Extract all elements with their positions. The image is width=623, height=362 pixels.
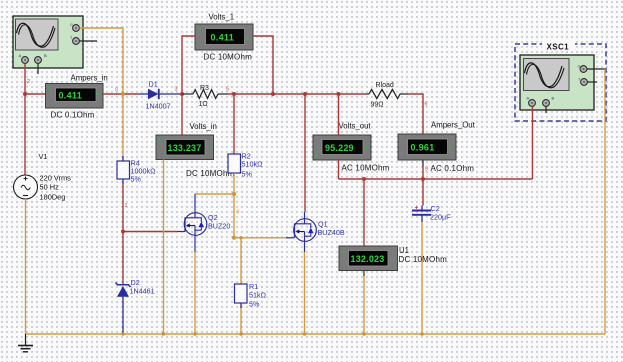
svg-text:B: B: [552, 96, 555, 101]
node junction at (273,94): [271, 92, 275, 96]
ammeter Ampers_in: [46, 74, 108, 120]
resistor R3 1 Ohm: [182, 85, 228, 108]
svg-text:Ampers_Out: Ampers_Out: [431, 121, 476, 130]
svg-text:Rload: Rload: [376, 82, 394, 89]
ammeter Ampers_Out: [398, 121, 476, 174]
MOSFET Q2 BUZ20: [184, 194, 230, 252]
zener diode D2 1N4461: [116, 278, 155, 334]
svg-text:9: 9: [237, 210, 240, 216]
MOSFET Q1 BUZ40B: [294, 94, 345, 252]
svg-text:220µF: 220µF: [430, 213, 451, 222]
wire R2 to gate row (orange): [233, 194, 235, 238]
svg-text:1Ω: 1Ω: [199, 101, 208, 108]
svg-text:U1: U1: [399, 246, 409, 255]
svg-text:+: +: [400, 151, 403, 157]
svg-text:51kΩ: 51kΩ: [249, 291, 267, 300]
resistor R1 51kOhm: [235, 238, 267, 309]
svg-text:A: A: [527, 96, 530, 101]
svg-text:Volts_out: Volts_out: [339, 122, 372, 131]
voltmeter Volts_in: [156, 122, 235, 178]
svg-text:R3: R3: [200, 85, 209, 92]
oscilloscope XSC2 (top-left): [13, 16, 83, 68]
resistor R2 510kOhm: [228, 94, 263, 194]
node junction at (234,194): [232, 192, 236, 196]
net label 3: [175, 87, 178, 93]
wire Q2 source to rail (orange): [194, 252, 196, 334]
ground rail wire (orange): [25, 333, 605, 335]
wire Rload to output corner (red): [408, 94, 423, 134]
node junction at (364,179): [362, 177, 366, 181]
node junction at (234,238): [232, 236, 236, 240]
wire XSC1 B stub: [545, 107, 547, 114]
ground symbol: [18, 334, 33, 352]
net label 1: [125, 203, 128, 209]
svg-text:5: 5: [226, 87, 229, 93]
svg-text:9: 9: [425, 167, 428, 173]
svg-text:95.229: 95.229: [325, 143, 354, 153]
wire R1 to rail (orange): [240, 308, 242, 334]
wire Volts_out bottom to measure row (red): [338, 160, 340, 179]
source V1 220Vrms: [14, 152, 72, 202]
svg-text:+: +: [47, 86, 50, 92]
node junction at (234,94): [232, 92, 236, 96]
svg-text:AC 0.1Ohm: AC 0.1Ohm: [431, 164, 475, 173]
svg-text:220 Vrms: 220 Vrms: [40, 174, 72, 183]
svg-text:D1: D1: [149, 80, 158, 89]
wire Ampers_Out bottom (red): [422, 160, 424, 206]
oscilloscope XSC1 dashed box: [515, 40, 606, 121]
net label 9: [425, 167, 428, 173]
wire XSC1 G terminal to right edge: [587, 68, 605, 70]
net label 2: [27, 79, 30, 85]
svg-text:DC 10MOhm: DC 10MOhm: [399, 255, 448, 264]
voltmeter Volts_out: [313, 122, 390, 173]
svg-text:510kΩ: 510kΩ: [242, 160, 264, 169]
svg-text:+: +: [390, 258, 393, 264]
wire C2 to rail (orange): [421, 222, 423, 334]
svg-text:G: G: [70, 23, 73, 27]
net label 6: [425, 102, 428, 108]
svg-text:1N4461: 1N4461: [130, 287, 155, 296]
svg-text:3: 3: [175, 87, 178, 93]
node junction at (123,94) orange: [121, 92, 125, 96]
svg-text:+: +: [97, 92, 100, 98]
svg-text:DC 10MOhm: DC 10MOhm: [204, 53, 253, 62]
wire Volts_out top terminal (red): [338, 94, 340, 135]
svg-text:180Deg: 180Deg: [40, 193, 66, 202]
svg-text:5%: 5%: [131, 175, 142, 184]
svg-text:+: +: [341, 250, 344, 256]
measure row wire (red): [339, 178, 533, 180]
wire U1 bottom to rail: [363, 271, 365, 335]
svg-text:AC 10MOhm: AC 10MOhm: [342, 164, 390, 173]
wire scope B stub: [37, 64, 39, 75]
svg-text:DC 10MOhm: DC 10MOhm: [186, 169, 235, 178]
wire node down to V1 (red): [24, 94, 26, 176]
node junction at (123,231): [121, 230, 125, 234]
svg-text:+: +: [315, 154, 318, 160]
wire V1 to ground rail (orange): [25, 199, 27, 334]
svg-text:8: 8: [115, 88, 118, 94]
wire ammeter to node8 (red): [103, 93, 139, 95]
svg-text:BUZ40B: BUZ40B: [318, 228, 345, 237]
diode D1 1N4007: [139, 80, 182, 111]
wire R4 to gate node (red): [122, 184, 124, 284]
svg-text:+: +: [365, 146, 368, 152]
wire Q1 source to rail (orange): [304, 252, 306, 334]
resistor Rload 99 Ohm: [366, 82, 408, 109]
svg-text:+: +: [197, 27, 200, 33]
wire scope T stub: [80, 40, 98, 42]
wire Volts_in bottom terminal to rail (orange): [163, 160, 165, 335]
voltmeter Volts_1: [195, 13, 253, 62]
node junction at (423,179): [421, 177, 425, 181]
wire XSC1 A terminal to measure row (red): [532, 107, 534, 180]
svg-text:+: +: [246, 36, 249, 42]
node junction at (338,94): [337, 92, 341, 96]
svg-text:133.237: 133.237: [168, 143, 202, 153]
wire XSC1 T stub: [588, 81, 598, 83]
svg-text:+: +: [207, 146, 210, 152]
svg-text:1N4007: 1N4007: [146, 102, 171, 111]
svg-text:A: A: [19, 53, 22, 58]
svg-text:50 Hz: 50 Hz: [40, 183, 60, 192]
wire Volts_1 right terminal (red): [253, 36, 273, 94]
svg-text:B: B: [44, 53, 47, 58]
net label 8: [115, 88, 118, 94]
svg-text:2: 2: [27, 79, 30, 85]
svg-text:+: +: [449, 146, 452, 152]
svg-text:0.411: 0.411: [211, 33, 235, 43]
wire gate row to Q1 (orange): [234, 237, 294, 239]
wire node to ammeter (red): [25, 93, 46, 95]
svg-text:0.961: 0.961: [411, 143, 435, 153]
wire Q2 drain link (orange): [195, 193, 234, 195]
capacitor C2 220uF: [412, 204, 451, 222]
svg-text:5%: 5%: [249, 300, 260, 309]
net label 9 mid: [237, 210, 240, 216]
rail node dots: [121, 332, 423, 335]
svg-text:Ampers_in: Ampers_in: [71, 74, 108, 83]
voltmeter U1: [339, 179, 447, 271]
svg-text:G: G: [578, 65, 581, 69]
svg-text:+: +: [158, 138, 161, 144]
svg-text:Volts_in: Volts_in: [190, 122, 217, 131]
node junction at (305,94): [303, 92, 307, 96]
wire R3 to Rload (red): [228, 93, 366, 95]
node junction at (25,94): [23, 92, 27, 96]
wire Volts_in top terminal (red): [181, 94, 183, 135]
wire Volts_1 left terminal (red): [182, 36, 195, 94]
wire XSC1 right down to rail (orange): [604, 69, 606, 334]
net label 5: [226, 87, 229, 93]
node junction at (241,238): [239, 236, 242, 239]
wire scope A terminal down (red): [24, 64, 26, 95]
svg-text:5%: 5%: [242, 170, 253, 179]
svg-text:6: 6: [425, 102, 428, 108]
svg-text:Volts_1: Volts_1: [209, 13, 235, 22]
svg-text:XSC1: XSC1: [547, 43, 570, 52]
svg-text:DC 0.1Ohm: DC 0.1Ohm: [51, 111, 95, 120]
svg-text:BUZ20: BUZ20: [208, 222, 230, 231]
svg-text:0.411: 0.411: [59, 91, 83, 101]
svg-text:99Ω: 99Ω: [371, 102, 384, 109]
svg-text:132.023: 132.023: [351, 254, 385, 264]
wire gate node to Q2 (red): [123, 231, 185, 233]
wire scope ch-G to node (orange): [80, 28, 124, 94]
svg-text:1: 1: [125, 203, 128, 209]
svg-text:V1: V1: [39, 152, 48, 161]
node junction at (182,94): [180, 92, 184, 96]
oscilloscope XSC1 body: [520, 55, 594, 110]
resistor R4 1000kOhm: [117, 94, 156, 184]
